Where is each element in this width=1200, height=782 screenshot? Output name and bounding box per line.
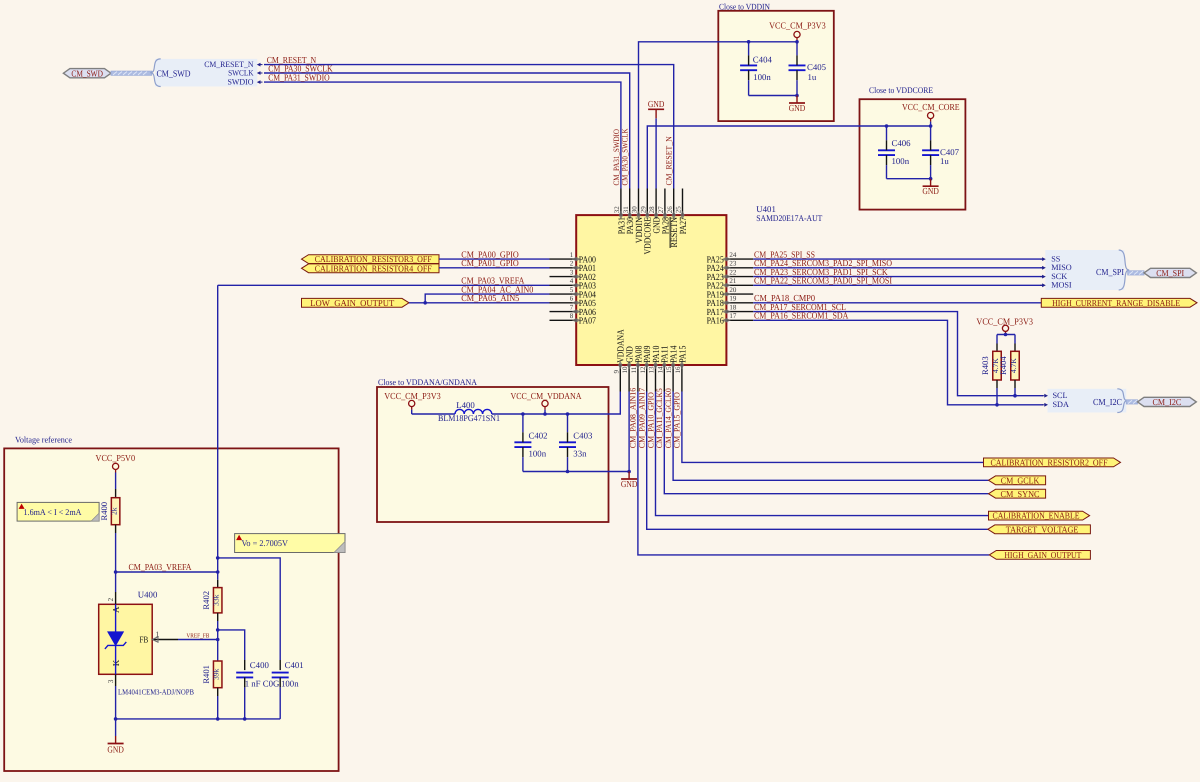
wire VDDIN gnd rail — [749, 95, 797, 97]
port CALIBRATION_RESISTOR4_OFF — [302, 264, 440, 273]
svg-text:R401: R401 — [201, 665, 211, 684]
svg-text:3: 3 — [106, 679, 115, 683]
svg-text:CM_PA30_SWCLK: CM_PA30_SWCLK — [621, 128, 630, 185]
resistor R404 — [1011, 351, 1020, 380]
wire pullup tops — [997, 334, 1015, 336]
svg-text:CM_PA03_VREFA: CM_PA03_VREFA — [129, 562, 192, 572]
wire PA22 MOSI — [753, 284, 1043, 286]
wire PA04 — [425, 294, 549, 303]
junction gnd-C403 — [566, 470, 570, 474]
svg-text:PA27: PA27 — [679, 217, 689, 234]
svg-text:R402: R402 — [201, 591, 211, 610]
resistor R403 — [993, 351, 1002, 380]
junction rail-C403 — [566, 412, 570, 416]
junction R400-VREFA — [114, 570, 118, 574]
port CM_SYNC — [989, 489, 1046, 498]
wire R401 bottom — [217, 688, 219, 696]
svg-text:Voltage reference: Voltage reference — [15, 434, 72, 444]
port CALIBRATION_ENABLE — [989, 511, 1090, 520]
svg-text:CM_PA05_AIN5: CM_PA05_AIN5 — [461, 293, 519, 303]
svg-text:8: 8 — [570, 312, 574, 320]
svg-text:18: 18 — [729, 303, 737, 311]
svg-text:11: 11 — [630, 366, 638, 373]
svg-text:30: 30 — [631, 206, 639, 214]
junction C401 branch — [216, 556, 220, 560]
svg-text:PA15: PA15 — [678, 345, 688, 362]
svg-text:GND: GND — [789, 103, 806, 113]
port CM_SWD — [63, 69, 111, 78]
wire PA03 net vertical — [217, 285, 219, 543]
svg-text:16: 16 — [674, 366, 682, 374]
junction rail-C402 — [521, 412, 525, 416]
svg-text:CM_PA10_GPIO: CM_PA10_GPIO — [646, 392, 655, 448]
svg-text:TARGET_VOLTAGE: TARGET_VOLTAGE — [1006, 524, 1079, 534]
svg-text:C402: C402 — [529, 430, 548, 440]
svg-text:FB: FB — [140, 635, 149, 645]
svg-text:CALIBRATION_RESISTOR4_OFF: CALIBRATION_RESISTOR4_OFF — [315, 263, 432, 273]
junction VREFA node — [216, 570, 220, 574]
junction rail-R401 — [216, 717, 220, 721]
ic U400 body — [99, 604, 153, 674]
wire R400 bottom — [115, 525, 117, 533]
wire R403 bottom — [996, 380, 998, 388]
port CM_SPI — [1144, 268, 1196, 277]
svg-text:SS: SS — [1051, 254, 1061, 263]
junction R403-SDA — [995, 403, 999, 407]
port HIGH_GAIN_OUTPUT — [989, 551, 1090, 560]
power VCC_CM_P3V3 (VDDIN) — [794, 31, 800, 37]
pin 7 PA06 (left) — [550, 311, 577, 313]
wire PA23 SCK — [753, 276, 1043, 278]
wire PA14 net — [673, 392, 988, 481]
svg-text:PA16: PA16 — [707, 317, 724, 327]
pin 3 K (U400 bottom) — [115, 674, 117, 686]
svg-text:CM_SWD: CM_SWD — [157, 68, 191, 78]
svg-text:15: 15 — [665, 366, 673, 374]
svg-text:Close to VDDANA/GNDANA: Close to VDDANA/GNDANA — [378, 377, 478, 387]
svg-text:31: 31 — [622, 206, 630, 214]
resistor R402 — [213, 588, 222, 613]
wire VCC to R400 — [115, 489, 117, 498]
svg-text:CM_PA15_GPIO: CM_PA15_GPIO — [673, 392, 682, 448]
wire VDDCORE rail — [647, 126, 930, 189]
wire C400 branch — [218, 630, 245, 660]
junction gnd-pin10 — [627, 470, 631, 474]
harness connector CM_SPI — [1045, 250, 1124, 290]
capacitor C401 — [272, 672, 289, 674]
svg-text:VREF_FB: VREF_FB — [186, 632, 209, 639]
wire CM_RESET_N — [264, 65, 674, 189]
pin 30 VDDIN (top) — [638, 189, 640, 216]
pin 5 PA04 (left) — [550, 293, 577, 295]
svg-text:100n: 100n — [529, 448, 547, 458]
svg-text:CM_PA14_GCLK0: CM_PA14_GCLK0 — [664, 388, 673, 448]
svg-text:CALIBRATION_RESISTOR2_OFF: CALIBRATION_RESISTOR2_OFF — [991, 458, 1108, 468]
bus CM_SPI rope — [1128, 271, 1144, 275]
wire PA16 SDA — [753, 320, 1043, 405]
wire PA10 net — [656, 392, 989, 516]
svg-text:SCL: SCL — [1053, 391, 1068, 400]
svg-text:MISO: MISO — [1051, 263, 1072, 272]
pin 6 PA05 (left) — [550, 302, 577, 304]
svg-text:CM_I2C: CM_I2C — [1153, 397, 1182, 407]
capacitor C407 — [922, 149, 939, 151]
svg-text:U400: U400 — [138, 590, 158, 600]
wire VDDCORE gnd rail — [887, 178, 931, 180]
pin 1 FB (U400 right) — [152, 639, 178, 641]
wire PA17 SCL — [753, 312, 1043, 396]
wire R402 bottom — [217, 613, 219, 621]
port LOW_GAIN_OUTPUT — [302, 298, 410, 307]
svg-text:R400: R400 — [99, 502, 109, 521]
svg-text:CM_PA01_GPIO: CM_PA01_GPIO — [461, 258, 519, 268]
pin 15 PA14 (bottom) — [672, 365, 674, 392]
ground GND (VDDCORE box) — [930, 179, 932, 187]
wire PA24 MISO — [753, 267, 1043, 269]
ground GND (vref) — [115, 719, 117, 736]
zener diode (inside U400) — [115, 604, 117, 632]
svg-text:GND: GND — [621, 479, 638, 489]
pin 3 PA02 (left) — [550, 276, 577, 278]
svg-text:CALIBRATION_ENABLE: CALIBRATION_ENABLE — [993, 511, 1080, 521]
svg-text:13: 13 — [648, 366, 656, 374]
wire PA11 net — [664, 392, 988, 494]
svg-text:VCC_P5V0: VCC_P5V0 — [96, 453, 136, 463]
pin 14 PA11 (bottom) — [663, 365, 665, 392]
wire VCC to L400 — [412, 413, 455, 415]
svg-text:VCC_CM_VDDANA: VCC_CM_VDDANA — [511, 391, 582, 401]
junction rail-VCC — [543, 412, 547, 416]
svg-text:100n: 100n — [281, 678, 299, 688]
svg-text:VCC_CM_P3V3: VCC_CM_P3V3 — [769, 21, 826, 31]
power VCC_CM_CORE — [928, 112, 934, 118]
svg-text:VCC_CM_CORE: VCC_CM_CORE — [902, 102, 960, 112]
svg-text:CM_PA31_SWDIO: CM_PA31_SWDIO — [268, 73, 330, 83]
pin 9 VDDANA (bottom) — [619, 365, 621, 392]
wire R404 bottom — [1014, 380, 1016, 388]
svg-text:HIGH_CURRENT_RANGE_DISABLE: HIGH_CURRENT_RANGE_DISABLE — [1052, 298, 1180, 308]
svg-text:21: 21 — [729, 277, 737, 285]
junction R404-SCL — [1013, 394, 1017, 398]
junction LOW_GAIN split — [423, 301, 427, 305]
junction rail-C400 — [243, 717, 247, 721]
resistor R401 — [213, 661, 222, 688]
svg-text:7: 7 — [570, 303, 574, 311]
svg-text:CM_SPI: CM_SPI — [1156, 268, 1184, 278]
pin 29 VDDCORE (top) — [646, 189, 648, 216]
note Vo — [235, 534, 345, 553]
junction FB node — [216, 638, 220, 642]
junction pullup top — [1004, 333, 1008, 337]
svg-text:2k: 2k — [109, 507, 118, 515]
svg-text:CM_PA09_AIN17: CM_PA09_AIN17 — [638, 388, 647, 449]
svg-text:CM_PA08_AIN16: CM_PA08_AIN16 — [629, 388, 638, 449]
svg-text:100n: 100n — [753, 72, 771, 82]
port HIGH_CURRENT_RANGE_DISABLE — [1041, 298, 1197, 307]
pin 10 GND (bottom) — [628, 365, 630, 392]
svg-text:C400: C400 — [250, 660, 270, 670]
pin 13 PA10 (bottom) — [655, 365, 657, 392]
svg-text:2: 2 — [106, 598, 115, 602]
port CALIBRATION_RESISTOR3_OFF — [302, 255, 440, 264]
svg-text:CM_PA31_SWDIO: CM_PA31_SWDIO — [612, 129, 621, 186]
svg-text:6: 6 — [570, 295, 574, 303]
power VCC_P5V0 — [113, 463, 119, 469]
power VCC_CM_VDDANA — [542, 400, 548, 406]
port TARGET_VOLTAGE — [988, 525, 1091, 534]
svg-text:100n: 100n — [892, 156, 910, 166]
svg-text:C403: C403 — [573, 430, 593, 440]
svg-text:SAMD20E17A-AUT: SAMD20E17A-AUT — [756, 213, 823, 223]
svg-text:22: 22 — [729, 268, 737, 276]
box Close to VDDCORE — [860, 99, 966, 209]
junction VDDIN-C405 — [795, 40, 799, 44]
svg-text:25: 25 — [675, 206, 683, 214]
ground GND (top of U401) — [655, 118, 657, 188]
svg-text:CM_SYNC: CM_SYNC — [1001, 489, 1040, 499]
bus CM_SWD harness rope — [111, 71, 152, 75]
pin 18 PA17 (right) — [726, 311, 753, 313]
svg-text:C404: C404 — [753, 55, 773, 65]
junction rail-K — [114, 717, 118, 721]
wire PA01 — [439, 267, 550, 269]
ground GND (VDDIN box) — [796, 96, 798, 104]
power VCC_CM_P3V3 (VDDANA box) — [409, 400, 415, 406]
capacitor C400 — [236, 672, 253, 674]
svg-text:10: 10 — [621, 366, 629, 374]
svg-text:19: 19 — [729, 295, 737, 303]
pin 22 PA23 (right) — [726, 276, 753, 278]
svg-text:4: 4 — [570, 277, 574, 285]
svg-text:GND: GND — [107, 745, 124, 755]
svg-text:1.6mA < I < 2mA: 1.6mA < I < 2mA — [24, 507, 83, 517]
svg-text:33n: 33n — [573, 448, 587, 458]
svg-text:39k: 39k — [212, 668, 221, 680]
svg-text:BLM18PG471SN1: BLM18PG471SN1 — [438, 413, 500, 423]
svg-text:23: 23 — [729, 260, 737, 268]
svg-text:CM_SWD: CM_SWD — [71, 68, 103, 78]
wire PA05 — [409, 302, 550, 304]
svg-text:VCC_CM_P3V3: VCC_CM_P3V3 — [384, 391, 441, 401]
harness connector CM_I2C — [1048, 389, 1127, 413]
wire PA03 VREFA — [218, 284, 550, 286]
pin 28 GND (top) — [655, 189, 657, 216]
pin 20 PA19 (right) — [726, 293, 753, 295]
svg-text:SWDIO: SWDIO — [228, 77, 254, 86]
box Voltage reference — [4, 448, 338, 771]
svg-text:33k: 33k — [212, 594, 221, 606]
ic U401 body — [576, 215, 726, 365]
wire gnd rail (vref) — [116, 718, 281, 720]
pin 21 PA22 (right) — [726, 284, 753, 286]
pin 1 PA00 (left) — [550, 258, 577, 260]
svg-text:CM_PA16_SERCOM1_SDA: CM_PA16_SERCOM1_SDA — [754, 311, 849, 321]
wire PA25 SS — [753, 258, 1043, 260]
svg-text:3: 3 — [570, 268, 574, 276]
svg-text:C406: C406 — [892, 138, 912, 148]
wire GND pin to rail — [628, 392, 630, 472]
svg-text:1: 1 — [570, 251, 574, 259]
svg-text:CM_SPI: CM_SPI — [1096, 267, 1124, 277]
svg-text:26: 26 — [666, 206, 674, 214]
svg-text:32: 32 — [613, 206, 621, 214]
wire PA00 — [439, 258, 550, 260]
pin 12 PA09 (bottom) — [646, 365, 648, 392]
pin 2 PA01 (left) — [550, 267, 577, 269]
svg-text:4.7K: 4.7K — [1009, 358, 1018, 373]
svg-text:L400: L400 — [456, 400, 475, 410]
wire VREFA row — [116, 571, 218, 573]
svg-text:PA07: PA07 — [579, 317, 596, 327]
svg-text:GND: GND — [922, 186, 939, 196]
junction VDDCORE gnd — [929, 177, 933, 181]
svg-text:24: 24 — [729, 251, 737, 259]
svg-text:1 nF C0G: 1 nF C0G — [245, 678, 280, 688]
svg-text:1: 1 — [156, 630, 160, 639]
svg-text:Close to VDDCORE: Close to VDDCORE — [869, 85, 933, 95]
svg-text:5: 5 — [570, 286, 574, 294]
wire C401 branch — [218, 558, 281, 660]
svg-text:SDA: SDA — [1053, 400, 1069, 409]
svg-text:C401: C401 — [285, 660, 304, 670]
capacitor C404 — [740, 64, 757, 66]
wire CM_PA30_SWCLK — [264, 73, 630, 189]
wire PA08 net — [638, 392, 989, 555]
pin 19 PA18 (right) — [726, 302, 753, 304]
pin 8 PA07 (left) — [550, 319, 577, 321]
wire VDDIN rail — [639, 42, 798, 189]
port CM_GCLK — [989, 476, 1046, 485]
svg-text:14: 14 — [656, 366, 664, 374]
svg-text:1u: 1u — [940, 156, 949, 166]
pin 27 PA28 (top) — [664, 189, 666, 216]
box Close to VDDANA/GNDANA — [377, 387, 609, 522]
ground GND (under U401) — [628, 472, 630, 480]
svg-text:17: 17 — [729, 312, 737, 320]
wire PA09 net — [647, 392, 988, 530]
svg-text:2: 2 — [570, 260, 574, 268]
wire PA18 CMP0 — [753, 302, 1041, 304]
svg-text:9: 9 — [612, 370, 620, 374]
note current range — [17, 502, 99, 521]
pin 24 PA25 (right) — [726, 258, 753, 260]
svg-text:SCK: SCK — [1051, 272, 1067, 281]
svg-text:CM_RESET_N: CM_RESET_N — [665, 136, 674, 185]
pin 31 PA30 (top) — [629, 189, 631, 216]
svg-text:VCC_CM_P3V3: VCC_CM_P3V3 — [976, 316, 1033, 326]
pin 11 PA08 (bottom) — [637, 365, 639, 392]
svg-text:LOW_GAIN_OUTPUT: LOW_GAIN_OUTPUT — [310, 298, 394, 308]
svg-text:R404: R404 — [998, 356, 1008, 375]
bus CM_I2C rope — [1126, 400, 1137, 404]
pin 16 PA15 (bottom) — [681, 365, 683, 392]
pin 4 PA03 (left) — [550, 284, 577, 286]
pin 32 PA31 (top) — [620, 189, 622, 216]
svg-text:R403: R403 — [980, 356, 990, 375]
pin 2 A (U400 top) — [115, 572, 117, 592]
svg-text:1u: 1u — [808, 72, 817, 82]
port CM_I2C — [1138, 397, 1197, 406]
port CALIBRATION_RESISTOR2_OFF — [984, 458, 1121, 467]
svg-text:CM_GCLK: CM_GCLK — [1001, 475, 1040, 485]
svg-text:CM_PA22_SERCOM3_PAD0_SPI_MOSI: CM_PA22_SERCOM3_PAD0_SPI_MOSI — [754, 276, 892, 286]
capacitor C402 — [514, 441, 531, 443]
resistor R400 — [111, 498, 120, 525]
pin 25 PA27 (top) — [682, 189, 684, 216]
svg-text:LM4041CEM3-ADJ/NOPB: LM4041CEM3-ADJ/NOPB — [118, 688, 194, 697]
svg-text:GND: GND — [648, 99, 665, 109]
svg-text:SWCLK: SWCLK — [228, 68, 253, 77]
svg-text:27: 27 — [657, 206, 665, 214]
capacitor C405 — [789, 64, 806, 66]
junction C400 branch — [216, 628, 220, 632]
junction VDDIN gnd — [795, 94, 799, 98]
power VCC_CM_P3V3 (pullups) — [1002, 325, 1008, 331]
capacitor C403 — [559, 441, 576, 443]
harness connector CM_SWD — [155, 59, 257, 87]
pin 26 RESETN (top) — [673, 189, 675, 216]
svg-text:20: 20 — [729, 286, 737, 294]
junction VDDCORE-C407 — [929, 124, 933, 128]
svg-text:C405: C405 — [807, 62, 827, 72]
junction VDDIN-C404 — [747, 40, 751, 44]
wire VDDANA rail — [492, 392, 621, 415]
pin 17 PA16 (right) — [726, 319, 753, 321]
wire analog gnd rail — [523, 471, 629, 473]
svg-text:Vo = 2.7005V: Vo = 2.7005V — [242, 538, 289, 548]
wire PA15 net — [682, 392, 984, 463]
svg-text:29: 29 — [639, 206, 647, 214]
svg-text:28: 28 — [648, 206, 656, 214]
svg-text:12: 12 — [639, 366, 647, 374]
box Close to VDDIN — [718, 11, 834, 121]
svg-text:CM_PA11_GCLK5: CM_PA11_GCLK5 — [655, 388, 664, 448]
wire CM_PA31_SWDIO — [264, 82, 621, 188]
svg-text:CM_I2C: CM_I2C — [1093, 397, 1122, 407]
svg-text:MOSI: MOSI — [1051, 281, 1072, 290]
junction VDDCORE-C406 — [885, 124, 889, 128]
inductor L400 — [455, 409, 464, 414]
capacitor C406 — [878, 149, 895, 151]
svg-text:HIGH_GAIN_OUTPUT: HIGH_GAIN_OUTPUT — [1004, 550, 1081, 560]
pin 23 PA24 (right) — [726, 267, 753, 269]
svg-text:Close to VDDIN: Close to VDDIN — [719, 1, 771, 11]
